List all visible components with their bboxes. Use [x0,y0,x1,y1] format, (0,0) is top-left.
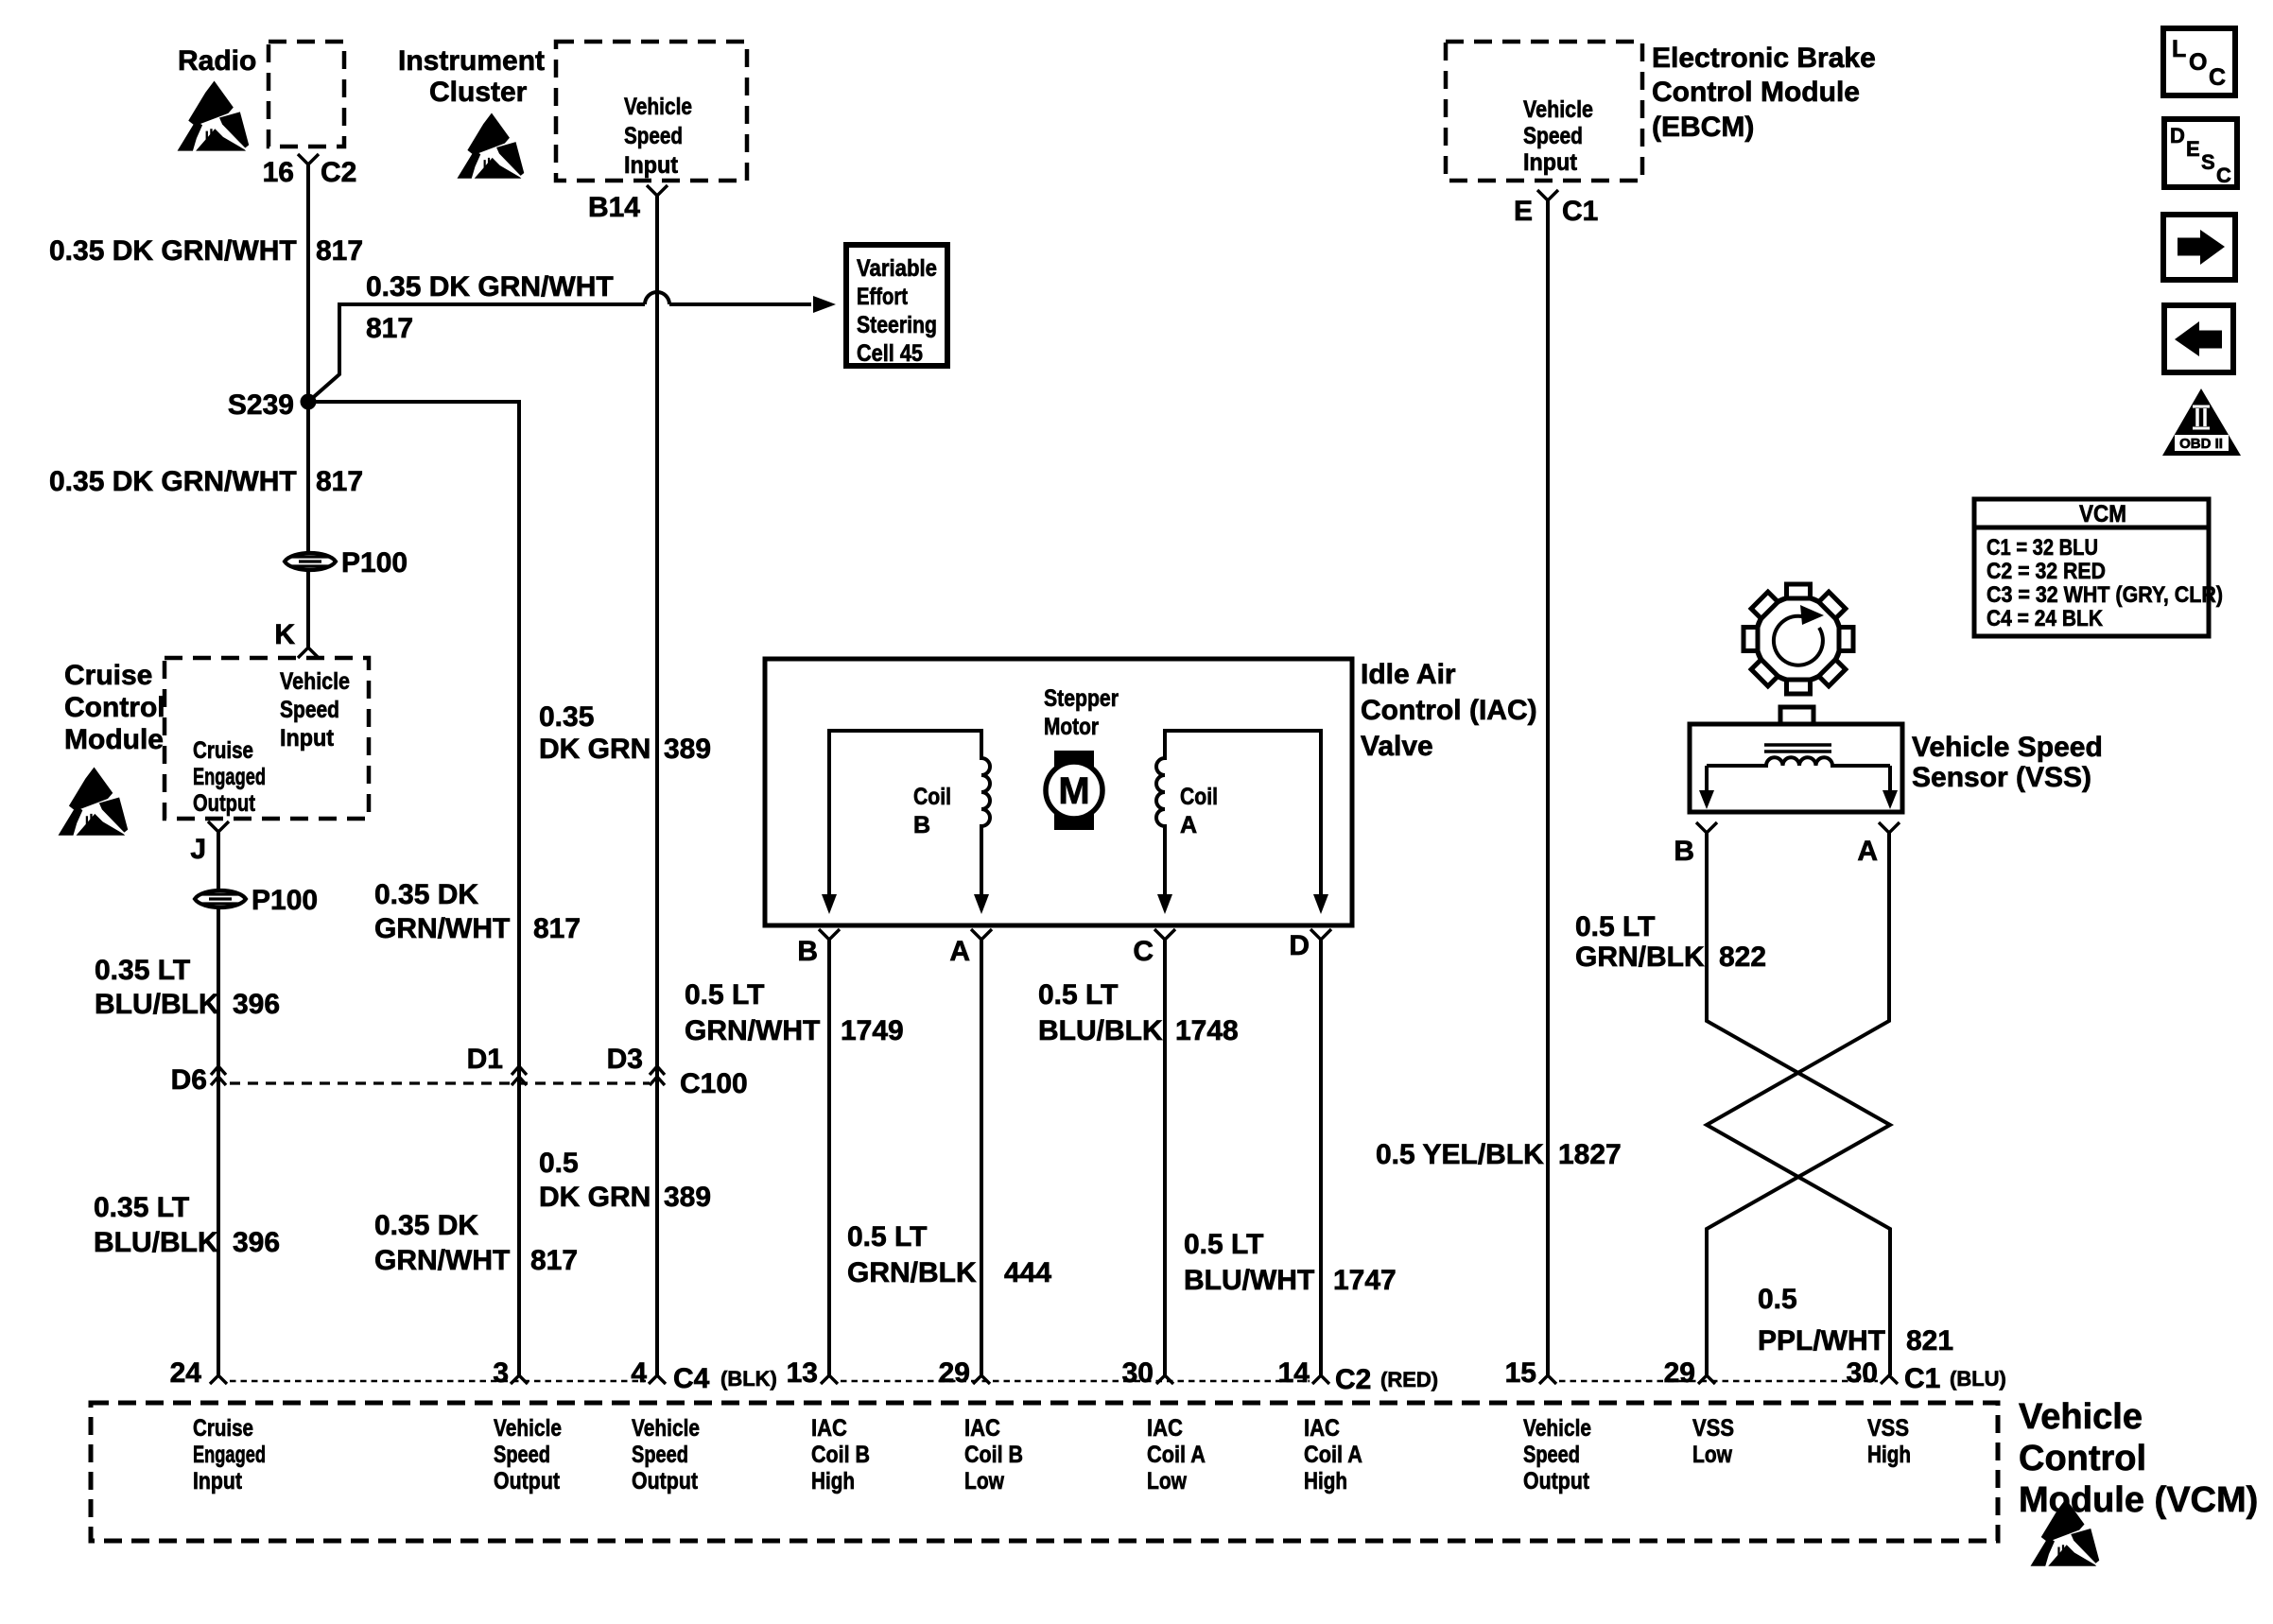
svg-text:C: C [2216,164,2231,187]
svg-text:C2 = 32 RED: C2 = 32 RED [1987,559,2106,584]
ESD symbol (Radio) [178,81,250,151]
svg-text:Input: Input [624,152,679,179]
svg-text:Speed: Speed [1523,123,1583,149]
wire 444 IAC coil B low [980,940,983,1375]
svg-text:Input: Input [1523,149,1578,176]
svg-text:Output: Output [193,790,256,817]
svg-text:Coil: Coil [1180,784,1218,810]
arrowhead into Variable Effort Steering [813,296,836,313]
svg-text:M: M [1058,770,1089,812]
VCM pin 3 fork [511,1375,528,1384]
svg-text:Effort: Effort [857,284,909,310]
svg-text:0.35 LT: 0.35 LT [94,1192,189,1223]
svg-text:Coil B: Coil B [964,1442,1023,1468]
svg-text:C3 = 32 WHT (GRY, CLR): C3 = 32 WHT (GRY, CLR) [1987,582,2223,608]
Vehicle Control Module dashed box [91,1403,1998,1541]
VCM pin function label at x=1790 [1692,1415,1734,1468]
svg-text:GRN/BLK: GRN/BLK [847,1257,977,1288]
OBD II icon [2162,389,2241,456]
svg-text:Cluster: Cluster [429,77,528,108]
svg-text:Vehicle: Vehicle [1523,96,1593,123]
svg-text:(RED): (RED) [1380,1368,1438,1391]
coil B arrowheads [822,894,837,914]
VCM pin function label at x=1975 [1867,1415,1911,1468]
svg-text:Cell 45: Cell 45 [857,340,923,367]
VCM pin function label at x=1020 [964,1415,1023,1494]
svg-text:C1: C1 [1562,196,1598,227]
svg-text:Vehicle: Vehicle [494,1415,562,1442]
stepper motor M [1046,751,1102,830]
connector chevrons D6 [211,1066,226,1085]
svg-text:821: 821 [1906,1325,1953,1356]
svg-text:Module: Module [64,724,164,755]
svg-text:3: 3 [493,1357,509,1389]
VCM pin function label at x=204 [193,1415,266,1494]
svg-text:0.35 DK GRN/WHT: 0.35 DK GRN/WHT [366,271,614,302]
wire 821 VSS high with twist [1707,833,1890,1375]
svg-text:D3: D3 [607,1044,643,1075]
ESD symbol (Instrument Cluster) [457,112,524,178]
wire 817 from radio to splice S239 down to P100 and K [306,164,310,648]
ESD symbol (Cruise Control Module) [59,768,129,836]
svg-text:D6: D6 [171,1064,207,1096]
VCM pin function label at x=1379 [1304,1415,1362,1494]
VSS pin A fork [1879,822,1900,833]
svg-text:Speed: Speed [494,1442,550,1468]
svg-text:24: 24 [170,1357,202,1389]
svg-text:DK GRN: DK GRN [539,1182,651,1213]
svg-text:Cruise: Cruise [193,737,253,764]
svg-text:Cruise: Cruise [64,660,152,691]
grommet P100 (lower) [195,890,246,907]
svg-text:0.5 LT: 0.5 LT [1575,911,1655,942]
wire 1827 YEL/BLK from EBCM to VCM pin 15 [1546,200,1550,1375]
svg-text:Low: Low [964,1468,1004,1494]
VSS pickup coil [1707,757,1890,766]
svg-text:L: L [2172,36,2186,62]
svg-text:Idle Air: Idle Air [1361,659,1456,690]
VCM pin 14 fork [1312,1375,1329,1384]
svg-text:Cruise: Cruise [193,1415,253,1442]
svg-text:1749: 1749 [841,1015,904,1046]
svg-text:O: O [2189,49,2207,76]
svg-text:1827: 1827 [1558,1139,1622,1170]
svg-text:PPL/WHT: PPL/WHT [1758,1325,1885,1356]
svg-text:0.5 LT: 0.5 LT [1038,979,1118,1011]
VCM pin 29 fork [973,1375,990,1384]
svg-text:A: A [1857,836,1878,867]
svg-text:Control: Control [64,692,165,723]
Idle Air Control valve box [765,659,1352,925]
svg-text:C2: C2 [1335,1364,1371,1395]
svg-text:Speed: Speed [632,1442,688,1468]
svg-text:Electronic Brake: Electronic Brake [1652,43,1876,74]
svg-text:E: E [2186,137,2200,161]
svg-text:0.5 LT: 0.5 LT [847,1221,927,1253]
svg-text:Vehicle: Vehicle [2019,1397,2143,1437]
wire 1747 IAC coil A high [1319,940,1323,1375]
svg-text:S: S [2201,150,2215,174]
VCM pin 30 fork [1156,1375,1173,1384]
svg-text:29: 29 [1664,1357,1695,1389]
svg-text:0.35 DK: 0.35 DK [374,1210,478,1241]
svg-text:Vehicle Speed: Vehicle Speed [1912,732,2103,763]
svg-text:IAC: IAC [1304,1415,1340,1442]
svg-text:Input: Input [193,1468,243,1494]
svg-text:16: 16 [263,157,294,188]
coil A arrowheads [1157,894,1172,914]
svg-text:Steering: Steering [857,312,937,338]
wire continues to VES arrow [669,302,811,306]
svg-text:822: 822 [1719,942,1766,973]
VCM pin function label at x=522 [494,1415,562,1494]
VSS pin B fork [1696,822,1717,833]
svg-text:D1: D1 [467,1044,503,1075]
svg-text:P100: P100 [341,547,408,579]
Vehicle Speed Sensor box [1690,707,1902,812]
svg-text:C1: C1 [1904,1363,1940,1394]
VCM pin function label at x=1611 [1523,1415,1591,1494]
svg-text:Output: Output [632,1468,699,1494]
svg-text:Speed: Speed [280,697,339,723]
svg-text:Control Module: Control Module [1652,77,1860,108]
svg-text:High: High [1867,1442,1911,1468]
svg-text:C100: C100 [680,1068,748,1099]
svg-text:396: 396 [233,1227,280,1258]
fork connector at cluster pin B14 [647,185,668,196]
svg-text:C4 = 24 BLK: C4 = 24 BLK [1987,606,2104,631]
VCM pin 15 fork [1539,1375,1556,1384]
svg-text:D: D [1289,930,1310,961]
wire 389 DK GRN from instrument cluster to VCM pin 4 [655,196,659,1375]
svg-text:0.5: 0.5 [1758,1284,1797,1315]
Instrument Cluster dashed box [556,42,747,181]
svg-text:P100: P100 [252,885,318,916]
svg-text:VSS: VSS [1867,1415,1909,1442]
svg-text:(BLU): (BLU) [1950,1367,2006,1391]
svg-text:VCM: VCM [2079,501,2126,527]
svg-text:S239: S239 [228,389,294,421]
svg-text:Low: Low [1147,1468,1187,1494]
svg-text:0.35 DK GRN/WHT: 0.35 DK GRN/WHT [49,466,297,497]
svg-text:0.35: 0.35 [539,701,594,733]
svg-text:Coil: Coil [913,784,951,810]
Radio component dashed box [269,42,344,147]
svg-text:E: E [1514,196,1533,227]
svg-text:0.5: 0.5 [539,1148,579,1179]
svg-text:817: 817 [530,1245,578,1276]
svg-text:IAC: IAC [811,1415,847,1442]
svg-text:A: A [949,936,970,967]
coil A winding circuit [1156,731,1321,898]
splice node S239 [301,394,317,410]
svg-text:Control (IAC): Control (IAC) [1361,695,1537,726]
svg-text:817: 817 [366,313,413,344]
svg-text:0.35 LT: 0.35 LT [95,955,190,986]
IAC pin C fork [1154,929,1175,940]
VCM pin function label at x=858 [811,1415,870,1494]
VCM pin function label at x=668 [632,1415,700,1494]
IAC pin D fork [1310,929,1331,940]
svg-text:14: 14 [1278,1357,1310,1389]
wire 822 VSS low with twist [1707,833,1890,1375]
VCM pin 24 fork [210,1375,227,1384]
svg-text:B: B [797,936,818,967]
connector chevrons D1 [512,1066,527,1085]
svg-text:A: A [1180,812,1197,838]
svg-text:Coil B: Coil B [811,1442,870,1468]
svg-text:Variable: Variable [857,255,937,282]
svg-text:15: 15 [1505,1357,1536,1389]
svg-text:Output: Output [494,1468,561,1494]
VSS pickup core lines [1764,745,1831,752]
LOC icon [2163,28,2235,95]
ESD symbol (VCM) [2031,1499,2100,1566]
svg-text:Module (VCM): Module (VCM) [2019,1480,2258,1520]
svg-text:Engaged: Engaged [193,1442,266,1468]
svg-text:BLU/BLK: BLU/BLK [94,1227,218,1258]
svg-text:IAC: IAC [1147,1415,1183,1442]
svg-text:Radio: Radio [178,45,256,77]
svg-text:C2: C2 [321,157,356,188]
svg-text:Vehicle: Vehicle [624,94,692,120]
svg-text:817: 817 [533,913,581,944]
wire 1749 IAC coil B high [827,940,831,1375]
svg-text:Stepper: Stepper [1044,685,1119,712]
svg-text:J: J [190,834,206,865]
svg-text:C: C [2209,64,2226,91]
wire 817 from S239 to VCM pin 3 [308,402,519,1375]
connector chevrons D3 [650,1066,665,1085]
svg-text:B14: B14 [588,192,640,223]
VCM pin 29 fork [1698,1375,1715,1384]
svg-text:389: 389 [664,1182,711,1213]
svg-text:C4: C4 [673,1363,710,1394]
svg-text:0.35 DK: 0.35 DK [374,879,478,910]
Electronic Brake Control Module dashed box [1446,42,1642,181]
svg-text:K: K [274,619,295,650]
svg-text:13: 13 [787,1357,818,1389]
left arrow icon [2164,305,2233,372]
svg-text:GRN/BLK: GRN/BLK [1575,942,1705,973]
IAC pin A fork [971,929,992,940]
svg-text:Speed: Speed [1523,1442,1580,1468]
VCM pin 30 fork [1881,1375,1898,1384]
svg-text:C1 = 32 BLU: C1 = 32 BLU [1987,535,2098,561]
fork connector at EBCM pin E [1537,190,1558,200]
svg-text:OBD II: OBD II [2179,436,2223,452]
svg-text:(EBCM): (EBCM) [1652,112,1754,143]
svg-text:High: High [811,1468,855,1494]
svg-text:1748: 1748 [1175,1015,1239,1046]
svg-text:4: 4 [631,1357,647,1389]
svg-text:C: C [1133,936,1154,967]
fork connector at radio pin 16 [298,154,319,164]
svg-text:Valve: Valve [1361,731,1433,762]
svg-text:817: 817 [316,466,363,497]
wire hop over cluster wire [645,292,669,304]
connector C100 dashed line [230,1081,650,1084]
svg-text:VSS: VSS [1692,1415,1734,1442]
right arrow icon [2163,215,2235,280]
coil B winding circuit [829,731,990,898]
svg-text:0.35 DK GRN/WHT: 0.35 DK GRN/WHT [49,235,297,267]
svg-text:BLU/BLK: BLU/BLK [95,989,219,1020]
svg-text:Coil A: Coil A [1147,1442,1206,1468]
svg-text:396: 396 [233,989,280,1020]
svg-text:0.5 YEL/BLK: 0.5 YEL/BLK [1376,1139,1544,1170]
svg-text:B: B [1674,836,1694,867]
svg-text:Motor: Motor [1044,714,1099,740]
Cruise Control Module dashed box [165,658,369,819]
Variable Effort Steering Cell 45 box [846,245,947,366]
svg-text:GRN/WHT: GRN/WHT [374,913,510,944]
svg-text:Input: Input [280,725,335,752]
svg-text:389: 389 [664,734,711,765]
svg-text:GRN/WHT: GRN/WHT [374,1245,510,1276]
wire 1748 IAC coil A low [1163,940,1167,1375]
DESC icon [2164,119,2237,187]
svg-text:Control: Control [2019,1439,2146,1478]
svg-text:(BLK): (BLK) [720,1367,777,1391]
IAC pin B fork [819,929,840,940]
svg-text:0.5 LT: 0.5 LT [685,979,764,1011]
svg-text:30: 30 [1847,1357,1878,1389]
svg-text:B: B [913,812,930,838]
svg-text:Coil A: Coil A [1304,1442,1362,1468]
svg-text:Sensor (VSS): Sensor (VSS) [1912,762,2091,793]
svg-text:Output: Output [1523,1468,1590,1494]
fork connector at cruise pin K [298,648,319,658]
svg-text:BLU/WHT: BLU/WHT [1184,1265,1314,1296]
svg-text:444: 444 [1004,1257,1051,1288]
svg-text:29: 29 [939,1357,970,1389]
svg-text:GRN/WHT: GRN/WHT [685,1015,820,1046]
svg-text:Speed: Speed [624,123,683,149]
svg-text:0.5 LT: 0.5 LT [1184,1229,1263,1260]
grommet P100 (upper) [285,553,336,570]
VCM pin 13 fork [821,1375,838,1384]
VCM connector table [1974,499,2223,636]
svg-text:High: High [1304,1468,1347,1494]
svg-text:Vehicle: Vehicle [632,1415,700,1442]
VSS internal leads with arrowheads [1707,766,1890,792]
wire branch from S239 to Variable Effort Steering [308,304,645,402]
svg-text:Engaged: Engaged [193,764,266,790]
svg-text:BLU/BLK: BLU/BLK [1038,1015,1163,1046]
svg-text:Low: Low [1692,1442,1732,1468]
svg-text:Instrument: Instrument [398,45,545,77]
svg-text:DK GRN: DK GRN [539,734,651,765]
svg-text:IAC: IAC [964,1415,1000,1442]
VSS reluctor gear [1744,584,1853,694]
VCM pin connector dashed lines [230,1380,1878,1382]
svg-text:D: D [2170,124,2185,147]
svg-text:30: 30 [1122,1357,1154,1389]
svg-text:Vehicle: Vehicle [280,668,350,695]
wire 396 LT BLU/BLK from cruise to VCM pin 24 [217,832,220,1375]
svg-text:1747: 1747 [1333,1265,1397,1296]
svg-text:Vehicle: Vehicle [1523,1415,1591,1442]
fork connector at cruise pin J [208,821,229,832]
svg-text:817: 817 [316,235,363,267]
VCM pin 4 fork [649,1375,666,1384]
VCM pin function label at x=1213 [1147,1415,1206,1494]
